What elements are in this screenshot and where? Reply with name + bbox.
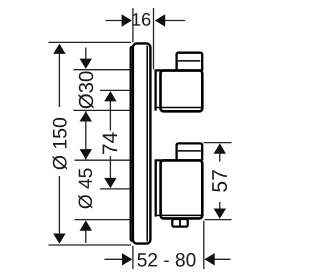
dim 52-80 label (138, 253, 196, 267)
dim D150 top extension line (49, 41, 132, 43)
dim D45 upper arrowhead (80, 149, 92, 159)
dim 16 extension line right (153, 8, 155, 69)
dim 16 extension line left (132, 8, 134, 42)
upper knob body (161, 71, 203, 112)
dim D150 upper arrowhead (53, 44, 65, 54)
dim D30 lower extension line (74, 109, 131, 111)
dim 74 upper arrowhead (104, 91, 116, 101)
dim 16 label (132, 13, 150, 26)
upper tab groove line (178, 60, 201, 62)
upper knob bottom inner line (157, 107, 201, 109)
dim 57 upper extension line (204, 142, 232, 144)
dim 52-80 left arrowhead (122, 253, 132, 265)
dim D45 lower tail (85, 230, 87, 243)
dim 52-80 left extension line (132, 246, 134, 269)
dim 16 right leader (165, 20, 185, 22)
dim D30 lower arrowhead (80, 111, 92, 121)
dim 57 upper line (219, 153, 221, 162)
dim D150 bottom extension line (49, 244, 132, 246)
dim 57 lower arrowhead (214, 209, 226, 219)
dim D30 upper arrowhead (80, 59, 92, 69)
dim 57 label (212, 170, 227, 192)
dim 52-80 right arrowhead (204, 253, 214, 265)
dim 16 right arrowhead (155, 14, 165, 26)
dim 16 left arrowhead (122, 14, 132, 26)
dim D150 label (53, 118, 67, 170)
lower knob bottom stop tab (172, 219, 187, 227)
lower knob bottom inner line (157, 214, 201, 216)
dim 16 left leader (106, 20, 123, 22)
dim D150 upper line (58, 53, 60, 107)
dim 57 upper arrowhead (214, 143, 226, 153)
dim D150 lower arrowhead (53, 234, 65, 244)
lower knob grip tab (177, 143, 203, 160)
dim 74 label (103, 132, 117, 154)
dim 74 upper line (109, 101, 111, 131)
lower knob top line (155, 159, 203, 161)
dim D30 label (78, 72, 93, 109)
shared tail between D30 and D45 (85, 111, 87, 159)
dim 57 lower extension line (205, 219, 232, 221)
dim 74 upper extension line (100, 89, 130, 91)
wall plate (escutcheon, side view) (133, 43, 151, 243)
dim 74 lower extension line (100, 188, 130, 190)
dim 57 lower line (219, 202, 221, 209)
dim D30 upper tail (85, 48, 87, 60)
dim D45 lower arrowhead (80, 220, 92, 230)
upper knob grip tab (177, 53, 203, 71)
dim D45 label (78, 169, 92, 209)
stop tab divider (179, 219, 181, 227)
dim D45 lower extension line (75, 219, 131, 221)
dim D150 lower line (58, 176, 60, 235)
dim 52-80 right extension line (203, 221, 205, 269)
plate front face edge line (146, 46, 148, 242)
dim 74 lower arrowhead (104, 178, 116, 188)
upper knob neck front line (154, 70, 156, 110)
sleeve behind wall plate (131, 47, 133, 241)
lower knob neck front line (155, 160, 157, 216)
dim 52-80 right leader (214, 258, 231, 260)
dim D30 upper extension line (74, 69, 131, 71)
dim D45 upper extension line (75, 159, 131, 161)
upper knob top line (155, 69, 203, 71)
dim 52-80 left leader (105, 258, 124, 260)
dim 74 lower line (109, 156, 111, 179)
lower knob body (161, 160, 203, 218)
lower tab groove line (178, 150, 201, 152)
